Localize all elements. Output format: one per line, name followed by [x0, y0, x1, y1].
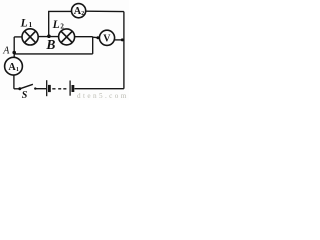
svg-text:L: L: [52, 19, 60, 31]
wire junction down: [92, 37, 94, 54]
svg-text:1: 1: [16, 67, 19, 73]
lamp L2: [59, 29, 75, 45]
wire A to junction (horizontal): [14, 53, 93, 55]
switch pivot dot: [18, 87, 21, 90]
wire left vertical upper (corner to A1): [13, 37, 15, 58]
wire voltmeter to right vertical: [114, 39, 124, 41]
wire battery to bottom right corner: [75, 88, 124, 90]
wire dashed (omitted cells): [52, 88, 66, 90]
wire bottom to switch: [14, 88, 20, 90]
battery cell 2 short thick plate: [72, 85, 75, 92]
wire top left segment: [48, 10, 72, 12]
svg-text:1: 1: [29, 21, 33, 29]
node B junction dot: [47, 34, 51, 38]
svg-text:A: A: [2, 45, 10, 56]
svg-text:B: B: [45, 37, 55, 52]
wire L2 to junction: [75, 36, 93, 38]
wire right vertical: [123, 12, 125, 89]
switch fixed contact: [34, 87, 36, 89]
ammeter A2: [72, 4, 86, 18]
junction dot at voltmeter left: [96, 36, 99, 39]
ammeter A1: [5, 57, 23, 75]
voltmeter V: [99, 30, 114, 45]
battery cell 1 short thick plate: [48, 85, 51, 92]
wire L1 to L2 through node B: [38, 36, 59, 38]
junction dot at voltmeter right: [121, 38, 124, 41]
wire top right segment: [86, 10, 124, 12]
wire switch to battery: [35, 88, 46, 90]
wire left vertical lower (A1 to bottom corner): [13, 75, 15, 89]
svg-text:S: S: [22, 90, 28, 100]
svg-text:L: L: [20, 17, 28, 29]
svg-text:dten5.com: dten5.com: [77, 92, 129, 100]
svg-text:2: 2: [60, 23, 64, 31]
wire B to top-left corner (vertical): [48, 11, 50, 36]
node A junction dot: [12, 51, 16, 55]
svg-text:2: 2: [81, 11, 84, 17]
battery cell 2 long plate: [69, 81, 71, 96]
lamp L1: [22, 29, 38, 45]
wire left corner to lamp L1: [14, 36, 22, 38]
switch S blade: [20, 84, 33, 89]
wire junction to voltmeter: [93, 36, 100, 39]
svg-text:V: V: [103, 33, 111, 44]
battery cell 1 long plate: [46, 80, 48, 96]
